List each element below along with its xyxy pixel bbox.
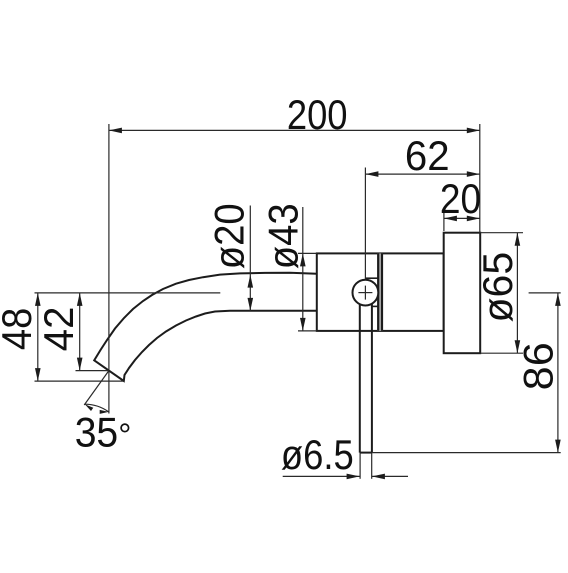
dimension Ø65 (flange): [480, 232, 523, 234]
pivot cross mark: [358, 292, 372, 294]
lever handle rod (Ø6.5): [359, 300, 361, 453]
wall flange plate (Ø65 x 20): [444, 233, 481, 354]
svg-text:86: 86: [515, 342, 562, 390]
dimension 62: [365, 173, 479, 175]
lever hub notch lower line: [372, 305, 378, 307]
dimension 20: [444, 217, 480, 219]
dimension 35° arc: [85, 404, 109, 412]
dimension 48 (axis to outlet bottom): [37, 293, 39, 381]
extension line right (plate face): [479, 124, 481, 233]
extension line left (200 ref, outlet axis): [108, 124, 110, 414]
dimension 42 (axis to outlet center): [79, 293, 81, 371]
svg-text:35°: 35°: [75, 409, 132, 456]
svg-text:ø43: ø43: [259, 203, 306, 269]
svg-text:ø65: ø65: [474, 252, 521, 323]
cartridge retaining ring (dark double line in body): [377, 253, 383, 331]
dimension Ø6.5 (lever rod): [359, 453, 361, 479]
dimension Ø43 (body): [302, 207, 304, 331]
lever pivot ball: [353, 280, 379, 306]
spout outline (curved tube Ø20, 35° outlet): [94, 273, 317, 381]
dimension Ø20 (spout tube): [249, 206, 251, 311]
centerline of spout / extension for 48 and 42: [35, 292, 221, 294]
extension line (lever axis for 62): [364, 168, 366, 280]
svg-text:62: 62: [405, 132, 450, 179]
dimension 35° (outlet angle ray): [84, 371, 109, 405]
lever hub notch upper line: [366, 277, 379, 279]
svg-text:48: 48: [0, 308, 40, 350]
svg-text:42: 42: [35, 307, 82, 352]
svg-text:20: 20: [440, 175, 481, 222]
extension line (plate left for 20): [443, 212, 445, 232]
svg-text:ø6.5: ø6.5: [281, 431, 354, 478]
svg-text:200: 200: [287, 91, 348, 138]
dimension 86 (axis to lever end): [529, 292, 561, 294]
svg-text:ø20: ø20: [206, 203, 253, 269]
dimension 200: [109, 129, 480, 131]
valve body (Ø43 cartridge housing): [317, 253, 444, 331]
